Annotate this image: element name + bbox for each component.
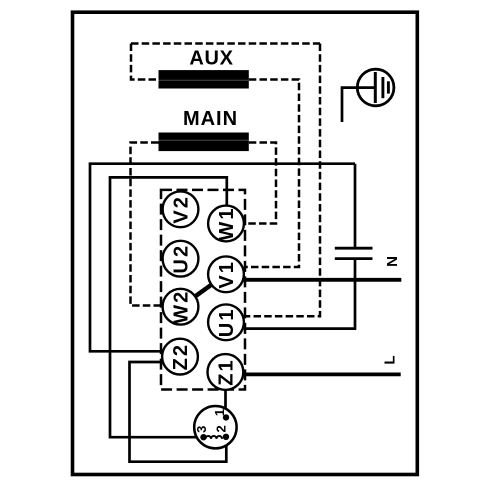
wire (dashed) MAIN right terminal to W1 [243,143,276,224]
wire (dashed) AUX right terminal to V1 [244,80,299,268]
winding MAIN (coil bar) [159,133,249,152]
wire Z1 to protector pin 1 [224,389,227,417]
thermal protector body [194,406,236,448]
svg-text:L: L [381,355,398,364]
winding AUX (coil bar) [159,70,249,88]
wire Z2 to capacitor top / U1 branch [90,164,355,352]
node N (supply line) [243,278,401,282]
svg-text:V1: V1 [216,260,238,289]
link bar W2-V1 [195,285,211,297]
wire capacitor bottom lead to U1 [244,259,355,329]
svg-text:U1: U1 [216,307,238,337]
svg-text:Z1: Z1 [216,358,238,386]
terminal Z2 [162,339,198,375]
ground symbol PE [357,69,394,106]
svg-text:3: 3 [194,426,209,433]
svg-text:AUX: AUX [189,48,233,70]
protector pin 3 junction [200,434,206,440]
node L (supply line) [242,372,401,376]
wire capacitor top lead [354,164,357,249]
svg-text:2: 2 [213,425,228,432]
terminal U1 [208,304,244,340]
terminal V1 [208,256,244,292]
protector pin 2 junction [223,434,229,440]
svg-text:Z2: Z2 [170,343,192,371]
svg-text:W1: W1 [216,206,238,240]
terminal W2 [163,289,199,325]
terminal W1 [208,206,244,242]
terminal V2 [163,191,199,227]
enclosure outline [73,12,418,474]
terminal U2 [163,241,199,277]
wire W1 top to protector pin 3 [110,177,227,437]
wire (dashed) AUX left terminal [131,44,158,80]
protector heater element [206,436,223,439]
terminal Z1 [208,354,244,390]
wire ground lead [342,88,374,122]
svg-text:V2: V2 [171,195,193,224]
svg-text:U2: U2 [171,244,193,274]
wire (dashed) AUX top loop [131,42,320,45]
wire Z2 to protector pin 2 [130,362,227,462]
svg-text:N: N [384,256,401,267]
terminal block outline (dashed) [161,190,245,390]
wire (dashed) MAIN left terminal to W2 [131,143,164,306]
wire (dashed) AUX top to U1 [245,44,321,317]
capacitor C plates [335,248,373,258]
svg-text:W2: W2 [171,290,193,324]
protector pin 1 junction [223,414,229,420]
svg-text:MAIN: MAIN [183,108,238,130]
